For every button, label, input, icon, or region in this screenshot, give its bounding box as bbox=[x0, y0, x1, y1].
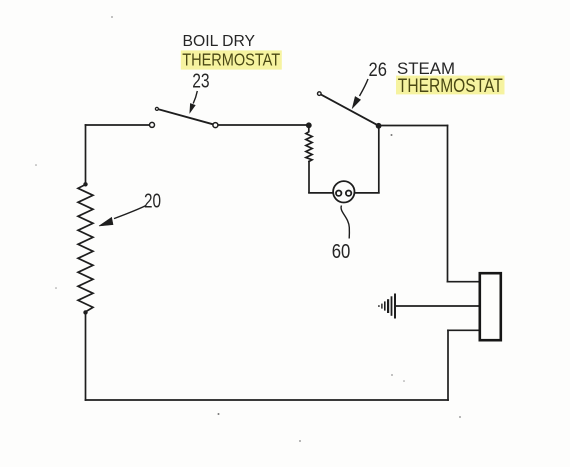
leader squiggle for 60 bbox=[341, 206, 349, 239]
plug body rectangle bbox=[480, 273, 501, 340]
leader arrow for 20 bbox=[99, 206, 146, 227]
wire lamp left horizontal bbox=[309, 192, 337, 194]
switch 23 pivot circle bbox=[213, 123, 218, 128]
resistor R1 (heating element 20) bbox=[78, 185, 93, 312]
lamp 60 right electrode bbox=[346, 191, 351, 196]
svg-text:THERMOSTAT: THERMOSTAT bbox=[182, 50, 280, 70]
switch 26 blade tip circle bbox=[318, 92, 322, 96]
wire left vertical upper bbox=[85, 125, 87, 184]
wire bottom horizontal bbox=[86, 399, 449, 401]
switch 26 blade bbox=[321, 94, 379, 125]
wire left vertical lower bbox=[85, 313, 87, 401]
wire bottom-right vertical bbox=[447, 330, 449, 400]
node A junction dot bbox=[306, 122, 312, 128]
highlight behind BOIL DRY THERMOSTAT bbox=[181, 50, 282, 69]
node B junction dot bbox=[376, 123, 382, 129]
highlight behind STEAM THERMOSTAT bbox=[396, 76, 505, 95]
wire below resistor R2 bbox=[308, 162, 310, 193]
switch 23 left contact circle bbox=[150, 122, 155, 127]
wire lamp right horizontal bbox=[351, 192, 379, 194]
resistor R1 top terminal dot bbox=[83, 182, 87, 186]
scan noise specks bbox=[218, 413, 220, 415]
resistor R1 bottom terminal dot bbox=[83, 310, 87, 314]
switch 23 blade bbox=[158, 109, 215, 125]
lamp 60 outer circle bbox=[333, 181, 354, 202]
lamp 60 left electrode bbox=[336, 191, 341, 196]
svg-text:23: 23 bbox=[192, 70, 209, 93]
switch 23 blade tip circle bbox=[155, 107, 158, 110]
svg-text:BOIL DRY: BOIL DRY bbox=[183, 33, 256, 50]
svg-text:THERMOSTAT: THERMOSTAT bbox=[398, 75, 503, 97]
wire between switches bbox=[218, 124, 309, 126]
svg-text:60: 60 bbox=[332, 240, 351, 263]
wire node B down to lamp bbox=[378, 126, 380, 193]
wire node B to right corner bbox=[379, 125, 448, 127]
resistor R2 (small, below node A) bbox=[306, 125, 312, 161]
svg-text:20: 20 bbox=[144, 189, 161, 212]
wire plug top prong bbox=[448, 281, 480, 283]
ground brush symbol bbox=[379, 294, 395, 319]
wire right vertical bbox=[447, 126, 449, 282]
leader arrow for 23 bbox=[190, 91, 198, 113]
wire plug middle prong bbox=[395, 305, 480, 307]
wire plug bottom prong bbox=[448, 329, 480, 331]
svg-text:26: 26 bbox=[369, 60, 387, 81]
wire top-left horizontal bbox=[86, 124, 150, 126]
leader arrow for 26 bbox=[352, 79, 368, 108]
